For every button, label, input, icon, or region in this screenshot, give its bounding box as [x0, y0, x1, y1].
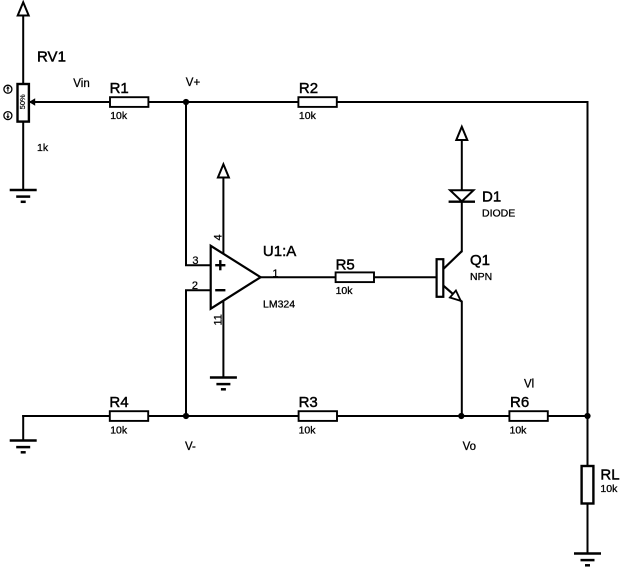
wire pin 2 to V- branch [186, 290, 211, 416]
resistor R1 [110, 97, 148, 107]
svg-text:NPN: NPN [470, 271, 492, 283]
svg-text:RV1: RV1 [37, 48, 66, 65]
svg-text:R1: R1 [110, 80, 129, 97]
wire op-amp pin 4 supply [222, 178, 224, 254]
svg-text:10k: 10k [336, 285, 354, 297]
svg-text:1k: 1k [37, 142, 49, 154]
svg-text:10k: 10k [299, 110, 317, 122]
wire bottom rail [23, 415, 587, 417]
svg-text:2: 2 [192, 280, 198, 292]
wire top rail V+ [29, 101, 588, 103]
svg-text:4: 4 [213, 234, 225, 240]
svg-text:R2: R2 [299, 80, 318, 97]
ground (op-amp pin 11) [210, 378, 237, 390]
diode D1 [449, 190, 475, 202]
ground (RV1) [10, 190, 37, 202]
power arrow (RV1 top) [18, 2, 29, 15]
svg-text:R6: R6 [510, 394, 529, 411]
svg-text:D1: D1 [482, 189, 501, 206]
wire V+ branch to pin 3 [186, 102, 211, 265]
wire D1 power drop [461, 140, 463, 190]
svg-text:R4: R4 [109, 394, 128, 411]
resistor RL [582, 466, 594, 504]
svg-text:1: 1 [272, 268, 278, 280]
wire right edge [587, 102, 589, 416]
ground (RL) [574, 554, 601, 566]
wire RL bottom to ground [587, 504, 589, 554]
ground (bottom left) [10, 441, 37, 453]
svg-text:50%: 50% [18, 94, 27, 109]
wire RL top [587, 416, 589, 466]
svg-text:R3: R3 [299, 394, 318, 411]
node V+ junction [183, 99, 189, 105]
wire bottom-left ground drop [22, 416, 24, 441]
op-amp U1:A [211, 246, 261, 309]
svg-text:10k: 10k [299, 425, 317, 437]
resistor R3 [299, 411, 337, 421]
svg-text:R5: R5 [336, 256, 355, 273]
svg-text:Q1: Q1 [470, 252, 490, 269]
svg-text:10k: 10k [600, 483, 618, 495]
power arrow (op-amp pin 4) [218, 164, 229, 177]
svg-text:10k: 10k [510, 425, 528, 437]
wire op-amp pin 11 to ground [222, 301, 224, 378]
potentiometer RV1 [4, 84, 35, 122]
wire RV1 bottom terminal [22, 122, 24, 191]
wire Q1 emitter to Vo node [461, 302, 463, 416]
svg-text:LM324: LM324 [263, 298, 295, 310]
svg-text:10k: 10k [110, 425, 128, 437]
svg-text:V+: V+ [186, 77, 201, 89]
svg-text:11: 11 [213, 314, 225, 325]
svg-text:Vin: Vin [73, 78, 89, 90]
svg-text:RL: RL [600, 466, 619, 483]
transistor Q1 [437, 251, 462, 302]
svg-text:DIODE: DIODE [482, 208, 515, 220]
svg-text:3: 3 [192, 255, 198, 267]
resistor R6 [509, 411, 547, 421]
node Vl junction [584, 413, 590, 419]
resistor R5 [336, 272, 374, 282]
node Vo junction [458, 413, 464, 419]
svg-text:U1:A: U1:A [263, 243, 296, 260]
svg-text:Vl: Vl [524, 379, 534, 391]
svg-text:10k: 10k [110, 110, 128, 122]
wire D1 cathode to Q1 collector [461, 202, 463, 252]
wire op-amp output to Q1 base [261, 276, 437, 278]
node V- junction [183, 413, 189, 419]
resistor R2 [298, 97, 336, 107]
power arrow (D1) [456, 127, 467, 140]
resistor R4 [110, 411, 148, 421]
svg-text:V-: V- [185, 441, 196, 453]
svg-text:Vo: Vo [463, 441, 476, 453]
wire RV1 top terminal [22, 16, 24, 85]
